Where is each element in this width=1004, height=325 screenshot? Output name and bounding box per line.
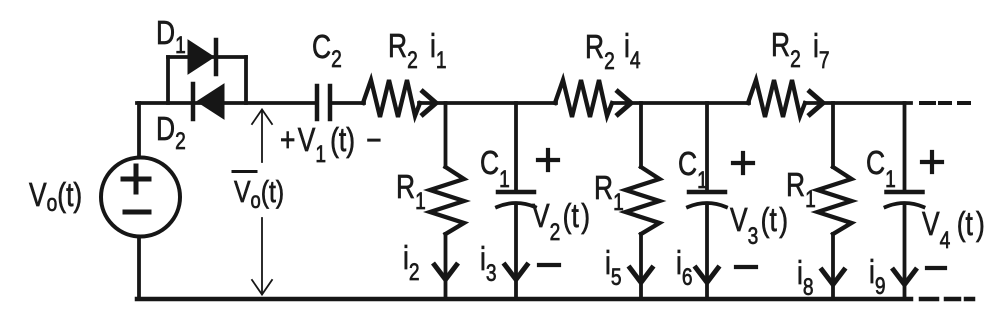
current arrow i2 bbox=[433, 263, 458, 280]
resistor R1 first zigzag bbox=[430, 167, 464, 234]
overbar of Vo-bar label bbox=[233, 170, 256, 173]
current arrow i1 bbox=[421, 90, 436, 116]
current arrow i9 bbox=[892, 268, 917, 285]
wire top rail middle segments bbox=[331, 101, 364, 105]
measurement arrow for Vo-bar (double headed) bbox=[261, 110, 263, 294]
minus sign near C1 first bbox=[539, 263, 559, 267]
capacitor C2 bbox=[315, 86, 320, 119]
diode D2 bbox=[197, 84, 224, 119]
capacitor C1 third (shunt) wire bbox=[903, 103, 907, 299]
capacitor C1 first (shunt) wire bbox=[514, 103, 518, 299]
wire source top to rail bbox=[137, 103, 141, 155]
diode D1 bbox=[188, 40, 214, 74]
capacitor C1 first plates bbox=[498, 190, 534, 195]
resistor R2 first (series) bbox=[363, 80, 420, 117]
diode loop left vertical wire bbox=[166, 57, 170, 103]
resistor R2 third (series) bbox=[748, 80, 805, 117]
wire top rail left segment bbox=[137, 101, 317, 105]
capacitor C1 third plates bbox=[887, 190, 923, 195]
top rail dashed continuation bbox=[921, 101, 969, 105]
current arrow i6 bbox=[695, 266, 720, 283]
wire source bottom to rail bbox=[137, 237, 141, 299]
capacitor C1 second plates bbox=[689, 190, 725, 195]
plus sign near C1 second bbox=[733, 153, 753, 173]
current arrow i8 bbox=[821, 268, 846, 285]
capacitor C1 second (shunt) wire bbox=[705, 103, 709, 299]
resistor R1 second (shunt) wire bbox=[639, 103, 643, 299]
minus sign near C1 second bbox=[736, 265, 756, 269]
plus sign inside source bbox=[123, 166, 149, 192]
current arrow i4 bbox=[616, 90, 631, 116]
plus sign near C1 third bbox=[922, 152, 942, 172]
resistor R1 third (shunt) wire bbox=[831, 103, 835, 299]
bottom rail dashed continuation bbox=[921, 297, 973, 302]
plus sign near C1 first bbox=[538, 150, 558, 170]
current arrow i7 bbox=[808, 90, 823, 116]
current arrow i3 bbox=[504, 263, 529, 280]
diode loop right vertical wire bbox=[244, 57, 248, 103]
minus sign near C1 third bbox=[927, 266, 945, 270]
current arrow i5 bbox=[629, 266, 654, 283]
diode loop top wire bbox=[168, 55, 246, 59]
voltage source V_o(t) bbox=[101, 158, 180, 237]
resistor R1 first (shunt) wire bbox=[444, 103, 448, 299]
bottom rail bbox=[137, 297, 911, 302]
resistor R1 third zigzag bbox=[818, 167, 852, 234]
minus sign inside source bbox=[125, 210, 149, 215]
resistor R2 second (series) bbox=[555, 80, 612, 117]
resistor R1 second zigzag bbox=[626, 167, 660, 234]
